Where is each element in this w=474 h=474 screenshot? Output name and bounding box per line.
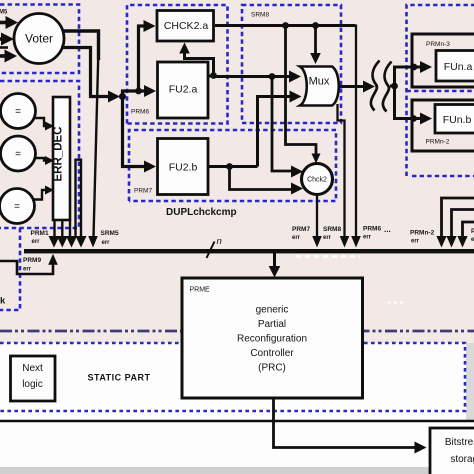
- dashed box PRM6: [127, 5, 228, 124]
- svg-text:Next: Next: [22, 363, 43, 374]
- bus labels: PRM1 err: [31, 230, 49, 245]
- svg-text:FUn.b: FUn.b: [443, 114, 472, 126]
- svg-text:SRM5: SRM5: [101, 230, 119, 237]
- background gray strip right of dotted box: [466, 343, 474, 421]
- wire Mux bottom step to SRM8-err arrow: [338, 104, 350, 248]
- node J2: [135, 88, 142, 95]
- node at x=272: [269, 73, 276, 80]
- svg-text:logic: logic: [22, 379, 43, 390]
- svg-text:PRM7: PRM7: [134, 188, 152, 195]
- Next logic box: [11, 356, 56, 401]
- wire comparator2 to ERR_DEC: [34, 156, 54, 165]
- wire J2 up to CHCK2.a input: [139, 20, 156, 91]
- svg-text:FU2.a: FU2.a: [169, 84, 198, 96]
- wire J1 up to FU2.a input: [123, 85, 157, 97]
- svg-text:PRME: PRME: [190, 287, 211, 294]
- svg-text:PRM6: PRM6: [363, 226, 381, 233]
- svg-text:err: err: [292, 235, 301, 241]
- voter input arrow 2: [0, 33, 14, 48]
- svg-text:Chck2: Chck2: [307, 177, 327, 184]
- dashed divider PRMn boxes: [407, 90, 474, 93]
- svg-text:=: =: [14, 202, 20, 213]
- wire FU2.b out up to Mux input 2: [258, 91, 302, 167]
- svg-text:err: err: [32, 239, 41, 245]
- node J1: [119, 93, 126, 100]
- nested wires from right into bus: [436, 198, 474, 248]
- FUn.b box: [435, 105, 474, 134]
- navy dash-dot-dot boundary: [0, 330, 474, 333]
- bus labels: SRM8 err: [323, 226, 341, 241]
- svg-text:Controller: Controller: [250, 348, 294, 359]
- wire down to Mux select: [310, 26, 321, 65]
- wire FU2.a output: [208, 75, 214, 78]
- background upper pink region: [0, 0, 474, 343]
- svg-text:err: err: [102, 240, 111, 246]
- svg-text:Voter: Voter: [25, 32, 53, 46]
- bus labels: SRM5 err: [101, 230, 119, 246]
- comparator circle 2: [1, 136, 36, 171]
- bottom black boundary line: [0, 420, 474, 423]
- white dots artifact: [388, 301, 403, 304]
- svg-text:PRM9: PRM9: [23, 257, 41, 264]
- svg-text:Mux: Mux: [309, 76, 330, 88]
- wire comparator3 to ERR_DEC: [32, 186, 54, 200]
- PRM9 wire from left into bus: [0, 254, 58, 274]
- dashed box PRMn-2 bottom: [412, 175, 474, 178]
- dashed region bottom-left k: [0, 228, 20, 310]
- white dashed artifact under bus: [296, 255, 360, 258]
- node FU2.a out: [210, 72, 217, 79]
- background bottom gray strip: [0, 467, 474, 474]
- background bottom white band: [0, 421, 474, 467]
- dashed box PRM7: [129, 130, 336, 201]
- dashed box SRM5 (around Voter): [0, 5, 79, 74]
- svg-text:SRM8: SRM8: [323, 226, 341, 233]
- wire to FUn.b input: [395, 86, 433, 125]
- bus labels right cut: [471, 228, 474, 243]
- error bus: [24, 249, 474, 253]
- svg-text:Bitstream: Bitstream: [445, 437, 474, 448]
- svg-text:SRM8: SRM8: [251, 12, 269, 19]
- dashed box SRM8: [242, 5, 341, 123]
- CHCK2.a box: [157, 11, 214, 42]
- ERR_DEC output stubs: [55, 220, 71, 238]
- dashed box PRMn-3: [407, 5, 474, 176]
- svg-text:k: k: [0, 296, 6, 307]
- svg-text:err: err: [323, 235, 332, 241]
- wire PRME to Bitstream storage: [274, 398, 427, 454]
- FU2.b box: [158, 139, 209, 195]
- node on CHCK2.a output at x=315.5: [312, 22, 319, 29]
- Mux output wire with break: [339, 81, 395, 93]
- wire to Chck2 top input: [286, 26, 321, 164]
- svg-text:PRM7: PRM7: [292, 226, 310, 233]
- svg-text:CHCK2.a: CHCK2.a: [164, 20, 209, 32]
- wire voter output B: [61, 48, 120, 103]
- svg-text:...: ...: [384, 225, 391, 234]
- wire FU2.a out to Mux input 1: [214, 71, 302, 83]
- svg-text:err: err: [411, 239, 420, 245]
- dashed box comparators: [0, 81, 79, 228]
- wire FU2.b out down to Chck2 lower-left input: [230, 167, 304, 195]
- FUn.a box: [436, 51, 474, 82]
- bus labels: PRMn-2 err: [410, 230, 435, 245]
- Mux shape: [300, 67, 339, 106]
- comparator circle 1: [1, 94, 36, 129]
- bus arrows cluster: [49, 236, 87, 248]
- PRMn-3 black box: [412, 34, 474, 87]
- node FU2.b out: [226, 163, 233, 170]
- svg-text:FU2.b: FU2.b: [169, 162, 198, 174]
- svg-text:=: =: [15, 149, 21, 160]
- svg-text:ERR_DEC: ERR_DEC: [53, 127, 65, 182]
- svg-text:(PRC): (PRC): [258, 363, 286, 374]
- break squiggle: [371, 61, 392, 112]
- svg-text:storage: storage: [450, 454, 474, 465]
- bus labels: PRM9 err: [23, 257, 41, 273]
- PRME box: [182, 278, 363, 398]
- PRMn-2 black box: [412, 100, 474, 151]
- bus labels: PRM7 err: [292, 226, 310, 241]
- bus width slash n: [207, 236, 222, 258]
- svg-text:STATIC PART: STATIC PART: [88, 373, 151, 383]
- wire CHCK2.a output to SRM8-err column: [215, 24, 361, 247]
- svg-text:PRMn-2: PRMn-2: [410, 230, 435, 237]
- svg-text:err: err: [363, 235, 372, 241]
- svg-text:n: n: [217, 236, 222, 247]
- wire voter output A (SRM5 line): [62, 31, 99, 248]
- svg-text:PRMn-3: PRMn-3: [426, 41, 450, 48]
- svg-text:=: =: [15, 107, 21, 118]
- node on CHCK2.a output at x=285: [282, 22, 289, 29]
- staple wires right of ERR_DEC: [76, 160, 82, 238]
- background static part white band: [0, 343, 474, 421]
- wire FU2.a out up to CHCK2.a bottom: [179, 43, 213, 76]
- comparator circle 3: [0, 189, 35, 224]
- FU2.a box: [158, 62, 209, 118]
- wire J1 down to FU2.b input: [123, 97, 157, 173]
- voter input arrow 3: [0, 50, 17, 63]
- bus labels: PRM6 err: [363, 226, 381, 241]
- svg-text:PRM1: PRM1: [31, 230, 49, 237]
- svg-text:Partial: Partial: [258, 319, 286, 330]
- svg-text:PRM6: PRM6: [131, 109, 149, 116]
- wire down to Chck2 upper-left input: [272, 77, 303, 178]
- svg-text:FUn.a: FUn.a: [444, 61, 473, 73]
- voter circle: [14, 14, 64, 64]
- svg-text:PRMn-2: PRMn-2: [426, 139, 450, 146]
- svg-text:generic: generic: [256, 305, 289, 316]
- wire to FUn.a input: [395, 61, 433, 86]
- Chck2 circle: [302, 164, 333, 195]
- Chck2 output wire: [312, 195, 322, 248]
- ERR_DEC box: [53, 97, 71, 220]
- svg-text:Reconfiguration: Reconfiguration: [237, 334, 307, 345]
- svg-text:DUPLchckcmp: DUPLchckcmp: [166, 207, 237, 218]
- voter input arrow 1: [0, 16, 18, 29]
- wire FU2.b output: [208, 165, 258, 168]
- wire comparator1 to ERR_DEC: [33, 118, 54, 131]
- wire bus to PRME: [269, 253, 281, 278]
- dotted static-part boundary: [0, 343, 465, 411]
- node after break: [391, 83, 398, 90]
- svg-text:M5: M5: [0, 10, 8, 16]
- svg-text:err: err: [23, 267, 32, 273]
- Bitstream storage box: [430, 428, 474, 474]
